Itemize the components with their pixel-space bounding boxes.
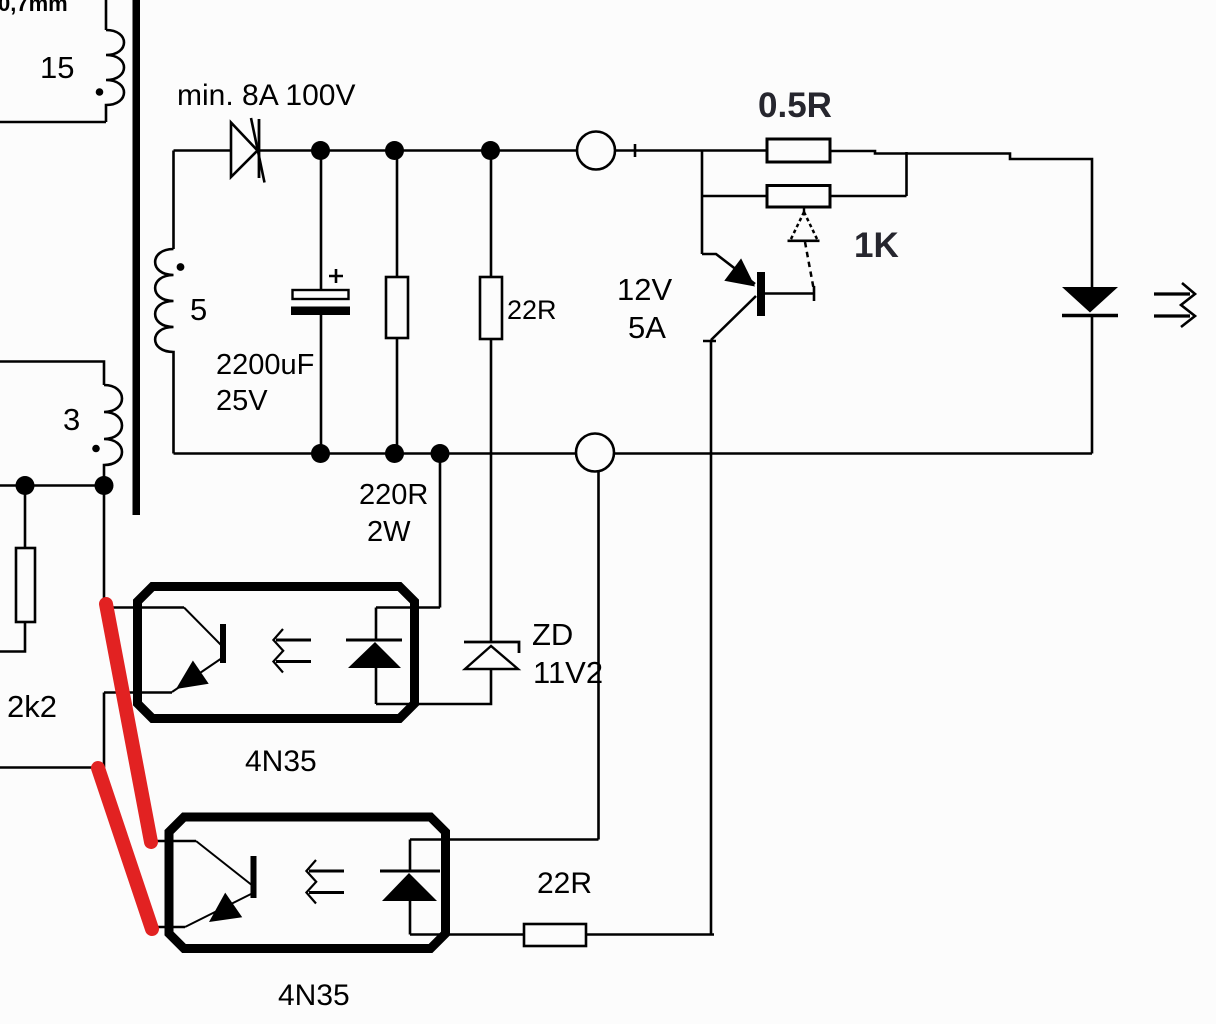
capacitor top lead — [320, 151, 323, 291]
opto2 led top pin wire to terminal2 — [410, 838, 599, 841]
capacitor 2200uF top plate — [293, 290, 349, 299]
wire bottom left edge — [0, 766, 104, 769]
wire primary top left — [105, 0, 108, 30]
svg-text:22R: 22R — [507, 295, 557, 325]
plus polarity tick — [634, 144, 637, 157]
opto1 LED triangle — [348, 642, 401, 668]
red mark 2 — [98, 768, 152, 929]
transistor collector wire — [703, 296, 756, 341]
svg-text:25V: 25V — [216, 385, 268, 417]
resistor 220R 2W body — [386, 277, 408, 338]
resistor 0.5R body 1 — [767, 139, 830, 162]
phase dot winding 15 — [96, 88, 104, 96]
optocoupler U2 4N35 box — [169, 817, 446, 949]
svg-text:5A: 5A — [628, 310, 666, 345]
resistor2 0.5R right lead — [830, 195, 907, 198]
svg-text:0.5R: 0.5R — [758, 86, 832, 125]
opto1 LED cathode bar — [346, 639, 402, 642]
transistor Q1 base bar — [757, 272, 765, 316]
junction dot top rail 220R — [385, 141, 404, 160]
wire terminal2 down — [597, 471, 600, 840]
transistor Q1 emitter arrow — [724, 258, 755, 286]
svg-text:5: 5 — [190, 292, 207, 327]
opto1 led top pin wire — [376, 606, 440, 609]
output terminal minus — [576, 434, 614, 472]
junction dot left rail winding3 — [95, 476, 114, 495]
svg-text:12V: 12V — [617, 272, 672, 307]
svg-text:4N35: 4N35 — [278, 979, 350, 1012]
top rail wire right of terminal — [615, 149, 767, 152]
opto1 collector pin wire — [104, 606, 184, 609]
opto2 led bottom pin wire — [410, 933, 524, 936]
top rail wire mid — [258, 149, 577, 152]
svg-text:3: 3 — [63, 402, 80, 437]
svg-text:ZD: ZD — [532, 617, 573, 652]
opto1 collector diagonal — [184, 608, 222, 647]
capacitor bottom lead — [320, 315, 323, 454]
wire 0.5R output to LED — [830, 151, 1092, 287]
junction dot bottom rail cap — [311, 444, 330, 463]
junction dot top rail cap — [311, 141, 330, 160]
resistor 22R body — [480, 277, 502, 339]
LED cathode wire down — [1091, 316, 1094, 454]
opto1 emitter diagonal — [172, 658, 222, 692]
phase dot winding 3 — [92, 445, 100, 453]
opto1 emitter pin wire — [104, 691, 172, 694]
bottom rail wire left — [174, 452, 577, 455]
wire primary bottom to left edge — [0, 121, 106, 124]
junction dot left rail 2k2 — [16, 476, 35, 495]
svg-text:2200uF: 2200uF — [216, 349, 314, 381]
svg-text:11V2: 11V2 — [533, 655, 603, 690]
left rail wire — [0, 484, 104, 487]
svg-text:22R: 22R — [537, 867, 592, 900]
capacitor 2200uF bottom plate — [291, 307, 350, 316]
collector wire down — [710, 340, 713, 935]
wire 0.5R join riser — [905, 152, 908, 196]
pot 1K wiper arrow — [788, 208, 820, 241]
opto1 light arrow top — [276, 639, 311, 642]
transistor base lead — [765, 292, 815, 295]
opto2 collector pin stub — [152, 840, 196, 843]
pot 1K tail — [805, 242, 814, 288]
svg-text:1K: 1K — [854, 226, 899, 265]
svg-text:2W: 2W — [367, 516, 411, 548]
opto1 emitter arrow — [176, 661, 209, 690]
opto2 light arrow bottom — [309, 891, 344, 894]
LED D2 triangle — [1062, 287, 1118, 313]
rectifier diode min. 8A 100V — [231, 118, 265, 183]
opto1 phototransistor base bar — [220, 624, 226, 663]
base lead end tick — [813, 286, 816, 301]
resistor 0.5R body 2 — [767, 186, 830, 208]
opto2 light arrow chevrons — [306, 860, 316, 904]
resistor2 0.5R left lead — [702, 195, 767, 198]
wire node B down to opto1 — [439, 454, 442, 608]
zener ZD 11V2 — [464, 642, 519, 669]
resistor 22R top lead — [490, 151, 493, 278]
red mark 1 — [106, 604, 151, 842]
LED D2 cathode bar — [1062, 314, 1118, 318]
opto2 emitter arrow — [209, 893, 242, 922]
svg-text:0,7mm: 0,7mm — [0, 0, 68, 16]
opto2 LED triangle — [382, 873, 437, 901]
opto2 collector diagonal — [196, 841, 253, 886]
opto1 light arrow bottom — [276, 660, 311, 663]
transistor emitter wire — [702, 254, 755, 284]
svg-text:min. 8A 100V: min. 8A 100V — [177, 79, 355, 112]
winding 15 — [106, 30, 124, 122]
output terminal plus — [577, 132, 615, 170]
svg-text:4N35: 4N35 — [245, 745, 317, 778]
opto1 led vertical — [375, 608, 378, 705]
svg-text:15: 15 — [40, 50, 74, 85]
top rail wire left — [174, 149, 232, 152]
wire node A to opto1 collector pin — [103, 486, 106, 608]
resistor 220R leads — [396, 151, 399, 454]
junction dot bottom rail 220R — [385, 444, 404, 463]
output arrows symbol — [1154, 283, 1195, 327]
resistor 22R bottom lead to zener — [490, 339, 493, 641]
svg-text:220R: 220R — [359, 479, 428, 511]
wire junction down to emitter — [701, 151, 704, 255]
opto2 emitter diagonal — [185, 893, 253, 927]
winding 3 — [104, 385, 122, 486]
opto2 phototransistor base bar — [251, 856, 257, 898]
opto2 LED cathode bar — [380, 870, 440, 873]
wire 22R bottom to collector — [586, 933, 714, 936]
resistor 22R bottom body — [524, 924, 586, 946]
winding 5 — [155, 249, 173, 454]
opto2 light arrow top — [309, 870, 344, 873]
optocoupler U1 4N35 box — [138, 587, 415, 719]
junction dot top rail 22R — [481, 141, 500, 160]
opto2 emitter pin wire — [155, 926, 185, 929]
bottom rail wire right — [614, 452, 1092, 455]
phase dot winding 5 — [177, 263, 185, 271]
junction dot bottom rail node B — [431, 444, 450, 463]
svg-text:2k2: 2k2 — [7, 689, 57, 724]
capacitor plus sign — [329, 269, 343, 283]
opto2 led vertical — [409, 840, 412, 935]
opto1 light arrow chevrons — [273, 629, 283, 673]
winding 3 top wire — [0, 362, 104, 386]
resistor 2k2 body — [16, 548, 35, 622]
wire winding5 top — [172, 151, 175, 250]
transformer core — [133, 0, 141, 515]
zener bottom wire to opto1 — [376, 669, 491, 704]
resistor 2k2 leads — [0, 486, 25, 652]
wire opto1 emitter pin down — [103, 693, 106, 768]
